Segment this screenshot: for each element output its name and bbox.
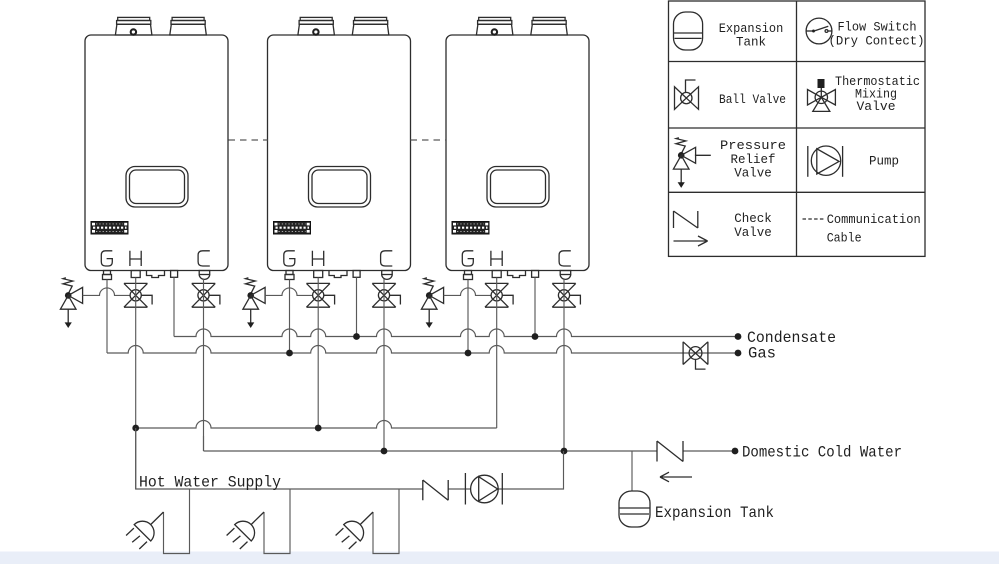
- legend table: [669, 1, 926, 256]
- junction dot gas u3: [465, 350, 472, 357]
- PRV3 outlet pipe with bridge: [444, 288, 492, 295]
- communication cable unit2-unit3: [411, 139, 447, 141]
- hot water manifold: [136, 421, 497, 428]
- legend thermostatic mixing valve symbol: [808, 79, 836, 111]
- ball valve C2: [372, 283, 400, 307]
- check valve domestic cold water: [657, 441, 692, 482]
- pressure relief valve PRV3: [421, 278, 443, 328]
- svg-text:Expansion: Expansion: [719, 22, 784, 36]
- svg-text:Tank: Tank: [736, 36, 766, 50]
- junction dot condensate u2: [353, 333, 360, 340]
- junction dot hot u1: [132, 425, 139, 432]
- gas shutoff ball valve: [683, 342, 708, 369]
- gas pipe G3: [467, 280, 469, 354]
- svg-text:Expansion Tank: Expansion Tank: [655, 504, 774, 522]
- condensate end dot: [735, 333, 742, 340]
- junction dot cold recirc: [561, 448, 568, 455]
- condensate drop unit2: [356, 277, 358, 336]
- svg-text:Cable: Cable: [827, 232, 862, 246]
- hot pipe H2: [317, 278, 319, 429]
- pressure relief valve PRV2: [243, 278, 265, 328]
- check valve recirculation: [423, 480, 448, 500]
- junction dot condensate u3: [532, 333, 539, 340]
- svg-text:Check: Check: [734, 212, 772, 226]
- svg-text:Valve: Valve: [857, 100, 896, 114]
- PRV1 outlet pipe with bridge over gas drop: [83, 288, 131, 295]
- svg-text:Gas: Gas: [748, 345, 776, 363]
- legend expansion tank symbol: [674, 12, 703, 50]
- svg-text:Pump: Pump: [869, 155, 899, 169]
- ball valve H2: [306, 283, 334, 307]
- junction dot hot u2: [315, 425, 322, 432]
- hot pipe H3: [496, 278, 498, 429]
- hot water supply line: [136, 428, 564, 489]
- legend pressure relief valve symbol: [673, 138, 695, 188]
- pressure relief valve PRV1: [60, 278, 82, 328]
- legend ball valve symbol: [675, 80, 699, 109]
- svg-text:Communication: Communication: [827, 213, 921, 227]
- svg-text:Pressure: Pressure: [720, 139, 786, 153]
- cold pipe C1: [203, 279, 205, 451]
- cold manifold left riser: [203, 436, 205, 451]
- water heater unit 2: [268, 17, 411, 279]
- legend communication cable symbol: [803, 218, 824, 220]
- condensate drop unit3: [534, 277, 536, 336]
- legend pump symbol: [808, 146, 843, 177]
- water heater unit 3: [446, 17, 589, 279]
- shower branch 3: [336, 489, 399, 554]
- gas main line with bridges: [107, 346, 738, 353]
- ball valve C3: [552, 283, 580, 307]
- ball valve H1: [124, 283, 152, 307]
- condensate drop unit1: [173, 277, 175, 336]
- water heater unit 1: [85, 17, 228, 279]
- gas pipe G2: [289, 280, 291, 354]
- cold pipe C2: [383, 279, 385, 451]
- PRV2 outlet pipe with bridge: [265, 288, 313, 295]
- svg-text:(Dry Contect): (Dry Contect): [829, 35, 925, 49]
- gas pipe G1: [106, 280, 108, 354]
- svg-text:Ball Valve: Ball Valve: [719, 93, 786, 107]
- legend flow switch symbol: [806, 18, 832, 44]
- svg-text:Valve: Valve: [734, 166, 772, 180]
- hot pipe H1: [135, 278, 137, 490]
- footer band: [0, 552, 999, 564]
- svg-text:Flow Switch: Flow Switch: [838, 21, 917, 35]
- gas end dot: [735, 350, 742, 357]
- condensate main line with bridges: [174, 329, 738, 337]
- cold pipe C3: [563, 279, 565, 451]
- junction dot gas u2: [286, 350, 293, 357]
- communication cable unit1-unit2: [229, 139, 268, 141]
- junction dot cold u2: [381, 448, 388, 455]
- cold water manifold: [204, 450, 736, 452]
- shower branch 1: [126, 489, 189, 554]
- expansion tank: [619, 491, 650, 527]
- recirculation pump: [465, 473, 502, 505]
- expansion tank drop pipe: [631, 451, 633, 491]
- domestic cold water end dot: [732, 448, 739, 455]
- legend check valve symbol: [674, 211, 708, 246]
- svg-text:Hot Water Supply: Hot Water Supply: [139, 474, 281, 492]
- shower branch 2: [227, 489, 290, 554]
- ball valve H3: [485, 283, 513, 307]
- svg-text:Relief: Relief: [730, 153, 775, 167]
- legend prv outlet line: [695, 154, 711, 156]
- svg-text:Valve: Valve: [734, 226, 772, 240]
- svg-text:Domestic Cold Water: Domestic Cold Water: [742, 444, 902, 462]
- ball valve C1: [192, 283, 220, 307]
